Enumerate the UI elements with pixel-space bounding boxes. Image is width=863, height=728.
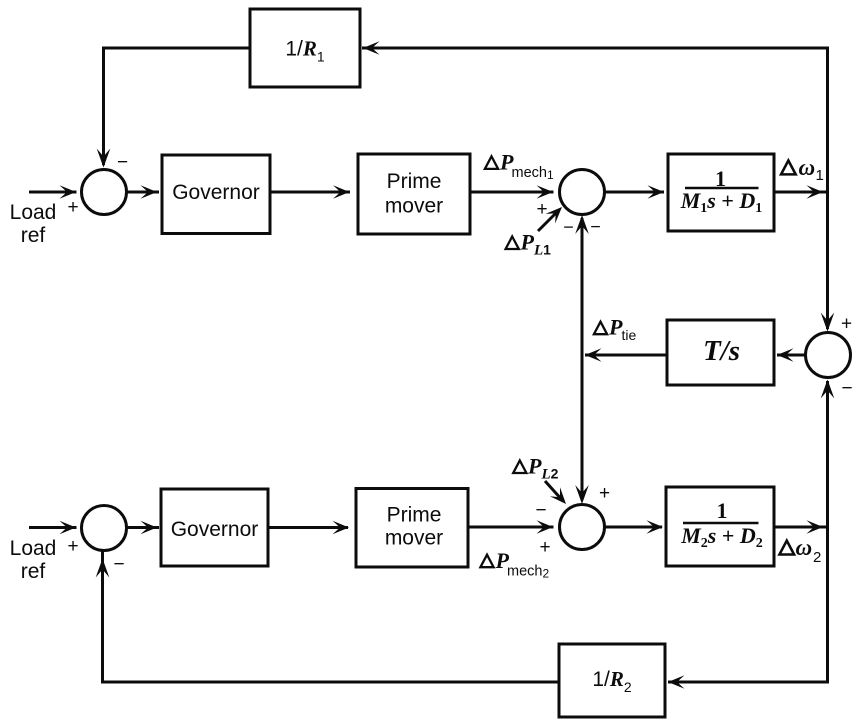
svg-text:ω: ω: [796, 535, 813, 560]
wire: Prime mover 2 to S4: [468, 526, 554, 529]
block: 1/R1: [250, 9, 360, 87]
svg-text:+: +: [539, 537, 550, 558]
label: delta P L2: [513, 454, 558, 483]
svg-text:Prime: Prime: [387, 170, 442, 193]
wire: right vertical bus bottom (from junction y=527 up into S3 bottom): [826, 381, 829, 682]
wire: Load ref input arrow (bottom area): [29, 526, 77, 529]
svg-text:M1s + D1: M1s + D1: [680, 188, 763, 216]
wire: arrowhead at tie node pointing left: [585, 348, 602, 362]
summing junction S5: [82, 506, 127, 551]
svg-text:Governor: Governor: [171, 518, 259, 541]
wire: arrowhead into 1/R2 right edge: [668, 675, 685, 689]
svg-text:Load: Load: [10, 537, 57, 560]
wire: 1/R1 output left then down to summing junction S1: [104, 48, 251, 165]
wire: S2 to block M1: [605, 191, 665, 194]
wire: bottom feedback horizontal from right bus into 1/R2: [668, 681, 829, 684]
wire: Prime mover to S2: [470, 191, 554, 194]
wire: Governor 2 to Prime mover 2: [268, 526, 348, 529]
svg-text:ref: ref: [21, 224, 46, 247]
svg-text:+: +: [599, 483, 610, 504]
block: Prime mover (area 2): [356, 489, 468, 568]
svg-text:1: 1: [717, 498, 728, 523]
wire: diagonal arrow from delta P L1 into S2: [538, 210, 559, 231]
wire: arrowhead into T/s right edge: [777, 348, 794, 362]
wire: arrowhead of load L1 arrow: [546, 202, 567, 223]
wire: top feedback horizontal from right bus into 1/R1: [362, 47, 829, 50]
summing junction S2: [560, 170, 605, 215]
svg-text:+: +: [536, 199, 547, 220]
wire: arrowhead into M1 block: [648, 185, 665, 199]
wire: S5 to Governor block (area 2): [127, 526, 160, 529]
svg-text:+: +: [841, 314, 852, 335]
svg-text:mech2: mech2: [507, 563, 549, 580]
block: Governor (area 2): [161, 489, 268, 566]
wire: arrowhead into M2 block: [647, 520, 664, 534]
wire: arrowhead of load L2 arrow: [550, 487, 571, 508]
wire: arrowhead up into S3 bottom: [821, 380, 835, 399]
svg-text:ω: ω: [799, 155, 816, 180]
label: delta omega 2: [779, 535, 821, 566]
wire: arrowhead into S5 left: [60, 521, 77, 535]
svg-text:+: +: [67, 536, 78, 557]
svg-text:2: 2: [813, 549, 821, 566]
label: delta P mech1: [485, 150, 554, 183]
wire: S4 to block M2: [605, 526, 663, 529]
wire: arrowhead at right bus junction (omega2): [807, 520, 824, 534]
wire: arrowhead into Governor: [141, 185, 158, 199]
wire: diagonal arrow from delta P L2 into S4: [545, 481, 563, 501]
wire: arrowhead into S1 left: [60, 185, 77, 199]
wire: arrowhead into S2 left: [537, 185, 554, 199]
wire: M2 output to right bus: [774, 526, 828, 529]
block: 1/(M1 s + D1): [668, 154, 774, 231]
summing junction S3 (tie-line comparator): [806, 333, 851, 378]
wire: Governor to Prime mover: [270, 191, 350, 194]
summing junction S1: [82, 170, 127, 215]
svg-text:−: −: [841, 378, 852, 399]
svg-text:mech1: mech1: [512, 165, 554, 182]
wire: 1/R2 output left then up into S5 bottom: [103, 551, 560, 682]
wire: arrowhead into S4 left: [537, 520, 554, 534]
wire: Load ref input arrow (top area): [29, 191, 77, 194]
svg-text:tie: tie: [622, 327, 637, 343]
wire: right vertical bus top (junction y=192 down into S3 top): [826, 48, 829, 329]
wire: arrowhead into Governor 2: [141, 521, 158, 535]
wire: tie vertical down into S4 top: [581, 355, 584, 500]
block: 1/(M2 s + D2): [666, 487, 774, 566]
label: delta P mech2: [480, 548, 549, 581]
svg-text:−: −: [535, 500, 546, 521]
wire: arrowhead down into S1 top: [97, 149, 111, 168]
svg-text:mover: mover: [385, 527, 443, 550]
wire: S3 to T/s block: [777, 354, 806, 357]
label: delta omega 1: [781, 155, 824, 184]
block: Governor (area 1): [162, 155, 270, 234]
block: 1/R2: [559, 644, 665, 717]
svg-text:Load: Load: [10, 201, 57, 224]
svg-text:M2s + D2: M2s + D2: [680, 523, 763, 551]
block: T/s: [667, 320, 774, 385]
wire: tie vertical up into S2 bottom: [581, 218, 584, 355]
label: delta P tie: [594, 315, 637, 344]
svg-text:mover: mover: [385, 195, 443, 218]
wire: arrowhead into 1/R1 right edge: [363, 41, 380, 55]
wire: S1 to Governor block: [127, 191, 160, 194]
svg-text:T/s: T/s: [703, 335, 740, 367]
svg-text:−: −: [563, 217, 574, 237]
svg-text:Governor: Governor: [172, 181, 260, 204]
svg-text:+: +: [67, 197, 78, 218]
svg-text:−: −: [117, 152, 128, 173]
wire: arrowhead up into S2 bottom: [575, 215, 589, 234]
wire: arrowhead into Prime mover: [333, 185, 350, 199]
wire: M1 output to right bus: [774, 191, 828, 194]
wire: arrowhead into Prime mover 2: [333, 521, 350, 535]
wire: arrowhead down into S4 top: [575, 485, 589, 504]
summing junction S4: [560, 505, 605, 550]
svg-text:1: 1: [816, 167, 824, 184]
wire: arrowhead at right bus junction (omega1): [807, 185, 824, 199]
svg-text:Prime: Prime: [387, 504, 442, 527]
svg-text:−: −: [590, 217, 601, 237]
wire: T/s output to tie-line node: [585, 354, 667, 357]
svg-text:ref: ref: [21, 560, 46, 583]
label: delta P L1: [506, 230, 552, 259]
wire: arrowhead up into S5 bottom: [96, 559, 110, 578]
svg-text:−: −: [113, 554, 124, 575]
wire: arrowhead down into S3 top: [821, 313, 835, 332]
block: Prime mover (area 1): [358, 154, 470, 234]
